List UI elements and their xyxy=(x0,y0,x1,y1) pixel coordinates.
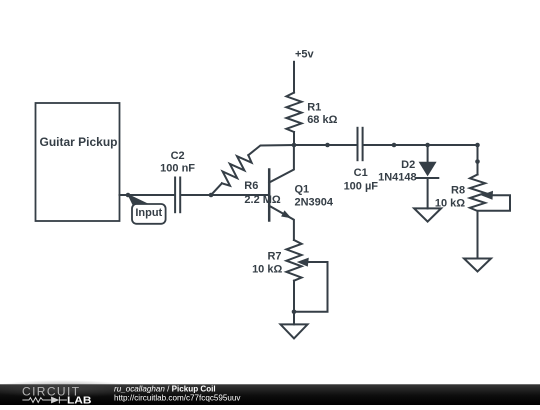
svg-text:Input: Input xyxy=(135,207,162,219)
svg-text:http://circuitlab.com/c77fcqc5: http://circuitlab.com/c77fcqc595uuv xyxy=(114,393,241,402)
svg-text:D2: D2 xyxy=(401,159,415,171)
svg-text:ru_ocallaghan / Pickup Coil: ru_ocallaghan / Pickup Coil xyxy=(114,384,216,393)
svg-text:C1: C1 xyxy=(354,167,368,179)
svg-text:+5v: +5v xyxy=(295,49,315,61)
svg-text:R7: R7 xyxy=(267,250,281,262)
svg-text:R6: R6 xyxy=(244,180,258,192)
svg-text:2N3904: 2N3904 xyxy=(295,197,334,209)
svg-text:1N4148: 1N4148 xyxy=(378,171,417,183)
svg-text:100 nF: 100 nF xyxy=(160,163,195,175)
svg-text:Q1: Q1 xyxy=(295,184,310,196)
svg-text:Guitar Pickup: Guitar Pickup xyxy=(39,135,117,149)
svg-text:68 kΩ: 68 kΩ xyxy=(307,114,337,126)
svg-text:R8: R8 xyxy=(451,185,465,197)
svg-text:C2: C2 xyxy=(171,150,185,162)
svg-text:2.2 MΩ: 2.2 MΩ xyxy=(244,194,281,206)
svg-text:10 kΩ: 10 kΩ xyxy=(435,198,465,210)
svg-text:R1: R1 xyxy=(307,102,321,114)
svg-text:LAB: LAB xyxy=(67,395,92,405)
svg-text:100 µF: 100 µF xyxy=(344,180,379,192)
svg-text:10 kΩ: 10 kΩ xyxy=(252,264,282,276)
